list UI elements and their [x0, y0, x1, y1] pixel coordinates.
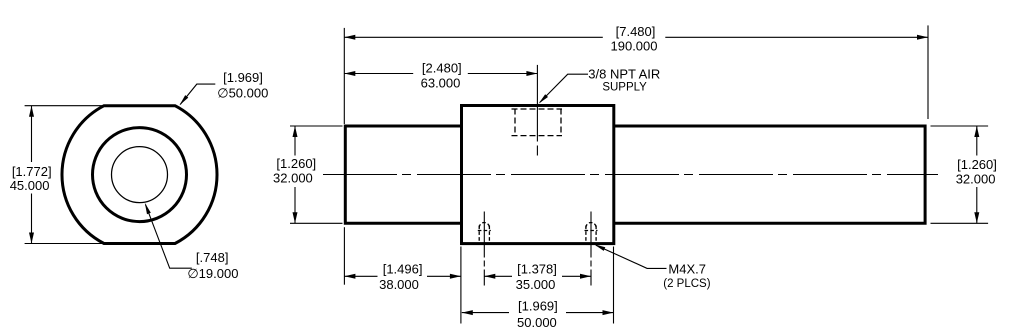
- svg-text:(2 PLCS): (2 PLCS): [663, 278, 710, 290]
- M4 leader line: [596, 245, 667, 268]
- arrow 190 right: [917, 35, 928, 40]
- left 32 dim line upper: [294, 126, 296, 156]
- extension line left shaft end (190/63): [343, 28, 345, 124]
- arrow left32 top: [293, 126, 298, 137]
- outer profile circle D50 with top/bottom flats: [62, 106, 217, 244]
- right 32 dim extension top: [931, 125, 989, 127]
- svg-text:[1.969]: [1.969]: [518, 299, 558, 314]
- NPT tapped hole hidden outline: [512, 109, 563, 136]
- dimension 45 extension line top: [25, 105, 104, 107]
- arrow 190 left: [344, 35, 355, 40]
- dimension 38 line right segment: [427, 275, 461, 277]
- dimension 190 line right segment: [665, 36, 928, 38]
- arrow D19 leader: [145, 203, 151, 215]
- svg-text:[1.260]: [1.260]: [276, 156, 316, 171]
- svg-text:[2.480]: [2.480]: [422, 61, 462, 76]
- extension line right shaft end (190): [927, 25, 929, 119]
- svg-text:SUPPLY: SUPPLY: [602, 82, 647, 94]
- svg-text:∅19.000: ∅19.000: [187, 266, 238, 281]
- dimension 45 extension line bottom: [25, 243, 104, 245]
- dimension 63 line right segment: [468, 73, 538, 75]
- NPT leader arrow: [539, 94, 549, 104]
- arrow 45 top: [29, 106, 34, 117]
- svg-text:35.000: 35.000: [516, 277, 556, 292]
- hub block outline D50x50: [462, 106, 614, 244]
- dimension 50 line right segment: [566, 312, 614, 314]
- svg-text:[1.378]: [1.378]: [517, 262, 557, 277]
- svg-text:3/8 NPT AIR: 3/8 NPT AIR: [588, 66, 660, 81]
- arrow 63 left: [344, 71, 355, 76]
- right 32 dim line upper: [976, 126, 978, 156]
- 38 dim extension left: [343, 227, 345, 285]
- svg-text:∅50.000: ∅50.000: [217, 85, 268, 100]
- arrow 35 left: [484, 274, 495, 279]
- NPT hole left side: [514, 109, 516, 136]
- NPT hole bottom: [512, 135, 563, 137]
- svg-text:190.000: 190.000: [611, 39, 658, 54]
- left 32 dim line lower: [294, 187, 296, 223]
- dimension 50 line left segment: [462, 312, 509, 314]
- arrow right32 top: [974, 126, 979, 137]
- dimension 35 line right segment: [562, 275, 591, 277]
- svg-text:38.000: 38.000: [379, 277, 419, 292]
- svg-text:[1.260]: [1.260]: [957, 157, 997, 172]
- svg-text:32.000: 32.000: [273, 171, 313, 186]
- main horizontal centerline: [323, 174, 938, 176]
- inner circle D19 bore: [112, 147, 168, 203]
- arrow left32 bottom: [293, 212, 298, 223]
- NPT thread top line: [512, 108, 563, 110]
- NPT hole vertical centerline: [536, 65, 538, 142]
- M4 leader arrow: [594, 244, 605, 251]
- dimension 35 line left segment: [484, 275, 512, 277]
- NPT leader line: [540, 74, 588, 102]
- svg-text:[1.969]: [1.969]: [223, 70, 263, 85]
- shaft left segment outline: [345, 126, 461, 223]
- arrow D50 leader: [180, 95, 189, 105]
- arrow 45 bottom: [29, 233, 34, 244]
- dimension 38 line left segment: [344, 275, 377, 277]
- svg-text:[.748]: [.748]: [196, 250, 229, 265]
- hub left extension line: [460, 247, 462, 324]
- M4 left hole centerline: [483, 212, 485, 286]
- arrow 38 left: [344, 274, 355, 279]
- svg-text:32.000: 32.000: [956, 171, 996, 186]
- arrow 50 left: [462, 310, 473, 315]
- dimension 190 line left segment: [344, 36, 603, 38]
- right 32 dim line lower: [976, 187, 978, 223]
- left 32 dim extension bottom: [290, 222, 343, 224]
- dimension 45 line upper segment: [31, 106, 33, 162]
- svg-text:63.000: 63.000: [421, 76, 461, 91]
- svg-text:[1.772]: [1.772]: [12, 164, 52, 179]
- svg-text:M4X.7: M4X.7: [668, 261, 706, 276]
- svg-text:45.000: 45.000: [10, 178, 50, 193]
- arrow 38 right: [450, 274, 461, 279]
- NPT hole right side: [560, 109, 562, 136]
- svg-text:[7.480]: [7.480]: [616, 24, 656, 39]
- M4 tapped hole left hidden outline: [478, 223, 491, 243]
- arrow right32 bottom: [974, 212, 979, 223]
- M4 tapped hole right hidden outline: [585, 223, 598, 243]
- svg-text:50.000: 50.000: [517, 315, 557, 330]
- arrow 50 right: [603, 310, 614, 315]
- left 32 dim extension top: [290, 125, 343, 127]
- hub right extension line: [613, 247, 615, 324]
- arrow 63 right: [526, 71, 537, 76]
- dimension 63 line left segment: [344, 73, 413, 75]
- shaft right segment outline: [614, 126, 925, 223]
- M4 right hole centerline: [590, 212, 592, 286]
- leader D50: [180, 84, 215, 104]
- middle circle D32 shaft silhouette: [93, 128, 187, 222]
- right 32 dim extension bottom: [931, 222, 989, 224]
- leader D19: [146, 205, 192, 269]
- dimension 45 line lower segment: [31, 194, 33, 244]
- arrow 35 right: [580, 274, 591, 279]
- svg-text:[1.496]: [1.496]: [383, 262, 423, 277]
